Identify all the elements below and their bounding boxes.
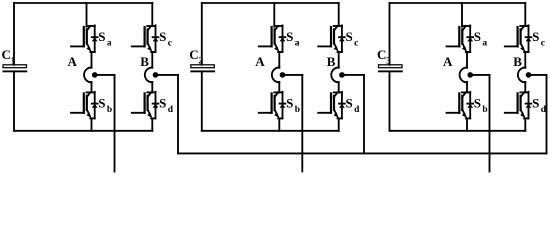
svg-text:S: S xyxy=(532,29,539,44)
label C2 xyxy=(189,47,203,66)
wire: cell 3 node B output (right then down to bus) xyxy=(529,75,547,153)
transistor S_c cell 3 (upper-right): IGBT symbol xyxy=(505,25,532,52)
wire: cell 1 S_b emitter to bottom rail xyxy=(91,118,93,130)
svg-text:a: a xyxy=(107,38,112,48)
wire: cell 1 node B output (right then down to bus) xyxy=(156,75,179,153)
wire: cell 1 right leg collector stub xyxy=(151,3,153,26)
svg-text:B: B xyxy=(327,54,336,69)
svg-text:d: d xyxy=(168,105,174,115)
svg-text:C: C xyxy=(377,47,386,62)
svg-text:S: S xyxy=(346,96,353,111)
wire: cell 1 node A to S_b collector xyxy=(91,82,93,92)
svg-text:S: S xyxy=(159,29,166,44)
wire: cell 2 node B output (right then down to bus) xyxy=(342,75,364,153)
svg-text:3: 3 xyxy=(386,56,391,66)
wire: cell 3 right leg collector stub xyxy=(524,3,526,26)
capacitor C2 xyxy=(190,65,215,72)
wire: cell 3 DC-link left wire lower xyxy=(389,72,391,131)
transistor S_c cell 2 (upper-right): IGBT symbol xyxy=(318,25,345,52)
wire: cell 2 left leg collector stub xyxy=(273,3,275,27)
svg-text:a: a xyxy=(482,38,487,48)
svg-text:S: S xyxy=(98,29,105,44)
wire: cell 3 left leg, S_a emitter to node A xyxy=(466,52,468,68)
wire: cell 3 S_b emitter to bottom rail xyxy=(466,118,468,130)
svg-text:2: 2 xyxy=(198,56,203,66)
wire: cell 1 right leg, S_c emitter to node B xyxy=(151,52,153,68)
label A xyxy=(255,54,265,69)
transistor S_b cell 2 (lower-left): IGBT symbol xyxy=(259,92,286,119)
transistor S_a cell 2 (upper-left): IGBT symbol xyxy=(259,25,286,52)
svg-text:C: C xyxy=(2,47,11,62)
wire: cell 3 top DC rail xyxy=(390,2,526,4)
label C1 xyxy=(2,47,16,66)
wire: cell 3 right leg, S_c emitter to node B xyxy=(524,52,526,68)
svg-text:S: S xyxy=(474,96,481,111)
label B xyxy=(513,54,522,69)
wire: cell 3 left leg collector stub xyxy=(461,3,463,27)
transistor S_b cell 3 (lower-left): IGBT symbol xyxy=(447,92,474,119)
wire: cell 2 node B to S_d collector xyxy=(338,82,340,92)
node A cell 2: terminal arc with junction dot xyxy=(272,67,285,82)
transistor S_a cell 1 (upper-left): IGBT symbol xyxy=(71,25,98,52)
transistor S_a cell 3 (upper-left): IGBT symbol xyxy=(447,25,474,52)
svg-text:B: B xyxy=(140,54,149,69)
wire: cell 1 DC-link left wire lower xyxy=(13,72,15,131)
node B cell 3: terminal arc with junction dot xyxy=(518,67,531,82)
svg-text:S: S xyxy=(98,96,105,111)
wire: cell 2 top DC rail xyxy=(202,2,339,4)
wire: common neutral bus joining B outputs of all cells xyxy=(178,152,547,154)
transistor S_c cell 1 (upper-right): IGBT symbol xyxy=(132,25,159,52)
wire: cell 1 S_d emitter to bottom rail xyxy=(151,118,153,130)
wire: cell 2 DC-link left wire upper xyxy=(201,3,203,65)
transistor S_d cell 3 (lower-right): IGBT symbol xyxy=(505,92,532,119)
wire: cell 2 bottom DC rail xyxy=(202,130,339,132)
svg-text:S: S xyxy=(474,29,481,44)
label A xyxy=(443,54,453,69)
wire: cell 3 DC-link left wire upper xyxy=(389,3,391,65)
wire: cell 2 DC-link left wire lower xyxy=(201,72,203,131)
label A xyxy=(68,54,78,69)
label C3 xyxy=(377,47,391,66)
wire: cell 2 phase output from node A (right then down) xyxy=(283,75,303,172)
svg-text:S: S xyxy=(346,29,353,44)
wire: cell 1 node B to S_d collector xyxy=(151,82,153,92)
wire: cell 3 bottom DC rail xyxy=(390,130,526,132)
wire: cell 3 node B to S_d collector xyxy=(524,82,526,92)
wire: cell 2 right leg collector stub xyxy=(338,3,340,26)
svg-text:A: A xyxy=(255,54,265,69)
wire: cell 2 left leg, S_a emitter to node A xyxy=(278,52,280,68)
wire: cell 1 left leg, S_a emitter to node A xyxy=(91,52,93,68)
svg-text:B: B xyxy=(513,54,522,69)
wire: cell 2 S_b emitter to bottom rail xyxy=(278,118,280,130)
svg-text:S: S xyxy=(286,96,293,111)
wire: cell 1 DC-link left wire upper xyxy=(13,3,15,65)
label B xyxy=(140,54,149,69)
wire: cell 3 node A to S_b collector xyxy=(466,82,468,92)
svg-text:c: c xyxy=(168,38,172,48)
wire: cell 2 S_d emitter to bottom rail xyxy=(338,118,340,130)
wire: cell 2 node A to S_b collector xyxy=(278,82,280,92)
wire: cell 1 phase output from node A (right then down) xyxy=(95,75,115,172)
svg-text:a: a xyxy=(295,38,300,48)
wire: cell 1 bottom DC rail xyxy=(14,130,152,132)
svg-text:S: S xyxy=(159,96,166,111)
node B cell 2: terminal arc with junction dot xyxy=(331,67,344,82)
node B cell 1: terminal arc with junction dot xyxy=(145,67,158,82)
wire: cell 1 left leg collector stub xyxy=(86,3,88,27)
transistor S_b cell 1 (lower-left): IGBT symbol xyxy=(71,92,98,119)
svg-text:b: b xyxy=(295,105,300,115)
label B xyxy=(327,54,336,69)
node A cell 3: terminal arc with junction dot xyxy=(460,67,473,82)
svg-text:A: A xyxy=(68,54,78,69)
wire: cell 1 top DC rail xyxy=(14,2,152,4)
svg-text:1: 1 xyxy=(11,56,16,66)
svg-text:c: c xyxy=(541,38,545,48)
svg-text:A: A xyxy=(443,54,453,69)
node A cell 1: terminal arc with junction dot xyxy=(84,67,97,82)
wire: cell 3 phase output from node A (right then down) xyxy=(470,75,489,172)
wire: cell 3 S_d emitter to bottom rail xyxy=(524,118,526,130)
svg-text:d: d xyxy=(354,105,360,115)
svg-text:S: S xyxy=(532,96,539,111)
svg-text:C: C xyxy=(189,47,198,62)
wire: cell 2 right leg, S_c emitter to node B xyxy=(338,52,340,68)
capacitor C3 xyxy=(378,65,403,72)
svg-text:b: b xyxy=(482,105,487,115)
svg-text:c: c xyxy=(354,38,358,48)
svg-text:S: S xyxy=(286,29,293,44)
transistor S_d cell 2 (lower-right): IGBT symbol xyxy=(318,92,345,119)
transistor S_d cell 1 (lower-right): IGBT symbol xyxy=(132,92,159,119)
capacitor C1 xyxy=(3,65,28,72)
svg-text:b: b xyxy=(107,105,112,115)
